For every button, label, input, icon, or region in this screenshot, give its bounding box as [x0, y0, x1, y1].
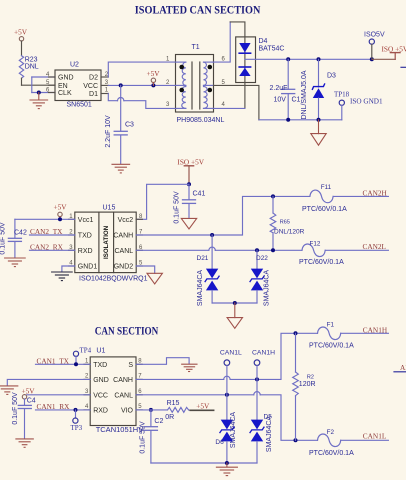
svg-text:C1: C1 — [292, 97, 301, 104]
svg-text:ISO +5V: ISO +5V — [177, 157, 204, 166]
svg-text:Vcc1: Vcc1 — [78, 217, 94, 224]
svg-text:DNL: DNL — [25, 63, 39, 70]
svg-text:C2: C2 — [154, 418, 163, 425]
svg-text:0.1uF 50V: 0.1uF 50V — [12, 392, 19, 425]
transformer T1 PH9085.034NL — [166, 44, 226, 124]
svg-text:TP18: TP18 — [334, 91, 350, 99]
capacitor C3 — [105, 85, 134, 163]
svg-text:TP4: TP4 — [80, 347, 92, 355]
wire CANH mid — [136, 196, 310, 235]
svg-text:GND1: GND1 — [78, 264, 98, 271]
svg-text:CAN2H: CAN2H — [363, 188, 388, 197]
svg-text:DNL/SMAJ5.0A: DNL/SMAJ5.0A — [301, 70, 308, 119]
wire CANL bottom (hop over CAN1H) — [136, 392, 318, 441]
node D21 top — [210, 233, 214, 237]
svg-text:CANL: CANL — [114, 393, 133, 400]
fuse F2 — [309, 429, 388, 457]
svg-text:+5V: +5V — [54, 203, 68, 212]
svg-text:VIO: VIO — [121, 408, 134, 415]
wire CANL mid (hop over D21) — [136, 247, 302, 250]
svg-text:R2: R2 — [307, 375, 314, 381]
svg-text:10V: 10V — [274, 97, 287, 104]
capacitor C41 — [173, 184, 205, 223]
node +5V tap — [151, 83, 155, 87]
svg-text:CAN1L: CAN1L — [220, 349, 242, 356]
ground (earth) U1 GND — [0, 386, 18, 395]
diode D21 SMAJ64CA — [197, 235, 220, 306]
svg-text:CAN2L: CAN2L — [363, 242, 387, 251]
ground (earth) C4 — [16, 439, 33, 447]
node +5V Vcc1 — [58, 217, 62, 221]
wire C2 to TVS common — [151, 462, 257, 464]
test point CAN1H — [252, 349, 275, 379]
test point TP18 ISO GND1 — [334, 91, 383, 120]
node R65 bottom — [271, 248, 275, 252]
test point CAN1L — [220, 349, 242, 394]
svg-text:CAN1L: CAN1L — [363, 432, 387, 441]
svg-text:0R: 0R — [165, 414, 174, 421]
node TVS common — [233, 301, 237, 305]
wire VCC pin3 — [27, 394, 90, 396]
node C1 top — [286, 57, 290, 61]
wire R23 to EN — [22, 84, 56, 86]
capacitor C1 — [270, 59, 301, 120]
svg-text:ISOLATED CAN SECTION: ISOLATED CAN SECTION — [135, 3, 261, 17]
svg-text:CANH: CANH — [113, 233, 133, 240]
svg-text:PTC/60V/0.1A: PTC/60V/0.1A — [309, 450, 354, 457]
ground (earth) GND1 — [52, 272, 73, 281]
svg-text:D4: D4 — [259, 38, 268, 45]
svg-text:CAN1H: CAN1H — [363, 326, 388, 335]
diode D4 BAT54C — [236, 37, 285, 83]
svg-text:120R: 120R — [299, 381, 316, 388]
wire Vcc2 to ISO+5V — [136, 184, 189, 219]
node U2 CLK junction — [37, 91, 41, 95]
isolator U15 ISO1042BQDWVRQ1 — [69, 205, 148, 283]
svg-text:D3: D3 — [327, 73, 336, 80]
svg-text:T1: T1 — [192, 44, 200, 51]
svg-text:EN: EN — [58, 83, 68, 90]
node ISO5V — [370, 57, 374, 61]
svg-text:D6: D6 — [215, 439, 224, 446]
wire T1 pin6 to D4 top — [214, 22, 231, 62]
power port +5V (R15) — [189, 402, 214, 411]
net label CAN1_RX — [36, 402, 91, 411]
wire +5V rail to Vcc1 — [15, 218, 75, 220]
node R2 top — [294, 331, 298, 335]
node D3 bottom — [317, 118, 321, 122]
svg-text:C3: C3 — [125, 121, 134, 128]
fuse F11 — [302, 184, 388, 213]
svg-text:GND: GND — [93, 377, 109, 384]
wire T1 pin5 to ISO GND rail — [214, 85, 259, 119]
capacitor C42 — [0, 219, 27, 257]
svg-text:U15: U15 — [103, 205, 116, 212]
svg-text:PTC/60V/0.1A: PTC/60V/0.1A — [302, 206, 347, 213]
power port +5V (bottom) — [22, 386, 36, 399]
svg-text:SMAJ64CA: SMAJ64CA — [230, 412, 237, 449]
node C3 tap — [119, 83, 123, 87]
svg-text:D2: D2 — [89, 75, 98, 82]
svg-text:CLK: CLK — [58, 90, 72, 97]
svg-text:ISOLATION: ISOLATION — [103, 225, 110, 259]
SECTION-BOT — [0, 322, 406, 476]
ground (power triangle) C41 — [181, 218, 196, 229]
node R2 bottom — [294, 438, 298, 442]
svg-text:D1: D1 — [89, 91, 98, 98]
diode D22 SMAJ64CA — [250, 250, 271, 306]
node VIO — [149, 408, 153, 412]
svg-text:CANL: CANL — [115, 248, 134, 255]
wire stub right edge — [401, 66, 406, 68]
diode D5 SMAJ64CA — [250, 379, 273, 463]
wire D21/D22 common — [212, 302, 257, 304]
svg-text:CAN1H: CAN1H — [252, 349, 275, 356]
svg-text:F1: F1 — [327, 322, 335, 329]
transceiver U1 TCAN1051HV — [84, 348, 143, 434]
ground (power triangle) D3 — [311, 120, 326, 145]
svg-text:CANH: CANH — [113, 377, 133, 384]
svg-text:D22: D22 — [256, 255, 268, 262]
node C1 bottom — [286, 118, 290, 122]
fuse F1 — [309, 322, 388, 350]
wire GND pin2 — [7, 379, 90, 385]
svg-text:RXD: RXD — [78, 248, 93, 255]
svg-text:ISO +5V: ISO +5V — [382, 45, 406, 54]
svg-text:VCC: VCC — [83, 83, 98, 90]
net label CAN2_RX — [30, 243, 75, 252]
svg-text:AN: AN — [400, 363, 406, 372]
wire S pin8 — [136, 358, 189, 365]
svg-text:PTC/60V/0.1A: PTC/60V/0.1A — [299, 259, 344, 266]
test point TP4 — [73, 347, 91, 365]
test point TP3 — [71, 410, 83, 432]
svg-text:R65: R65 — [280, 219, 290, 225]
resistor R2 — [293, 333, 316, 440]
svg-text:VCC: VCC — [93, 393, 108, 400]
power port ISO +5V (mid) — [177, 157, 204, 184]
wire U2 VCC to T1 pin2 — [108, 84, 175, 86]
svg-text:DNL/120R: DNL/120R — [274, 228, 305, 235]
wire D4 bottom to T1 pin4 — [244, 83, 246, 109]
svg-text:ISO5V: ISO5V — [364, 32, 385, 39]
resistor R23 — [19, 41, 39, 85]
node D22 top — [255, 248, 259, 252]
svg-text:U2: U2 — [70, 62, 79, 69]
svg-text:TXD: TXD — [93, 362, 107, 369]
svg-text:ISO GND1: ISO GND1 — [350, 97, 383, 105]
node C41 top — [187, 182, 191, 186]
svg-text:PTC/60V/0.1A: PTC/60V/0.1A — [309, 342, 354, 349]
ground (earth) S pin8 — [182, 364, 197, 371]
node TP3 — [74, 408, 78, 412]
power port ISO +5V (top right) — [372, 45, 406, 60]
svg-text:2.2uF 10V: 2.2uF 10V — [105, 115, 112, 148]
power port +5V (top left) — [14, 28, 28, 41]
wire GND1 — [62, 266, 75, 272]
node CAN1L — [225, 393, 229, 397]
node TP4 — [74, 362, 78, 366]
power port +5V (mid left) — [54, 203, 68, 220]
svg-text:TCAN1051HV: TCAN1051HV — [96, 425, 144, 434]
svg-text:C42: C42 — [14, 229, 27, 236]
node D6 bottom — [225, 461, 229, 465]
capacitor C2 — [140, 410, 164, 463]
wire ISO5V rail — [245, 58, 372, 60]
svg-text:SMAJ64CA: SMAJ64CA — [266, 416, 273, 453]
svg-text:S: S — [128, 362, 133, 369]
resistor R65 — [270, 196, 304, 250]
svg-text:GND2: GND2 — [114, 264, 134, 271]
svg-text:SN6501: SN6501 — [67, 102, 92, 109]
svg-text:U1: U1 — [96, 348, 105, 355]
svg-text:SMAJ64CA: SMAJ64CA — [197, 270, 204, 307]
ground (earth) C42 — [5, 258, 26, 267]
svg-text:C4: C4 — [27, 397, 36, 404]
svg-text:F12: F12 — [310, 240, 321, 247]
ground (earth) D5 D6 — [216, 463, 237, 476]
svg-text:F2: F2 — [327, 429, 335, 436]
svg-text:PH9085.034NL: PH9085.034NL — [177, 117, 225, 124]
svg-text:R15: R15 — [167, 400, 180, 407]
svg-text:TXD: TXD — [78, 233, 92, 240]
svg-text:GND: GND — [58, 75, 74, 82]
wire U2 pin loop — [32, 77, 55, 93]
diode D6 SMAJ64CA — [215, 395, 237, 463]
net stub right edge (cut) — [394, 363, 406, 372]
SECTION-MID — [0, 157, 388, 328]
power port +5V (T1) — [147, 69, 161, 85]
svg-text:0.1uF 50V: 0.1uF 50V — [173, 191, 180, 224]
svg-text:+5V: +5V — [196, 402, 210, 411]
svg-text:2.2uF: 2.2uF — [270, 85, 288, 92]
svg-text:C41: C41 — [193, 191, 206, 198]
svg-text:D21: D21 — [197, 255, 209, 262]
op-amp U2 SN6501 — [46, 62, 109, 109]
net label CAN2_TX — [30, 227, 75, 236]
svg-text:+5V: +5V — [14, 28, 28, 37]
svg-text:ISO1042BQDWVRQ1: ISO1042BQDWVRQ1 — [79, 275, 148, 282]
svg-text:Vcc2: Vcc2 — [118, 217, 134, 224]
svg-text:F11: F11 — [321, 184, 332, 191]
ground (power triangle) GND2 — [147, 273, 162, 284]
fuse F12 — [299, 240, 388, 266]
svg-text:BAT54C: BAT54C — [259, 46, 285, 53]
net label CAN1_TX — [36, 356, 91, 365]
svg-text:0.1uF 50V: 0.1uF 50V — [140, 421, 147, 454]
ground (power triangle) D21 D22 — [227, 303, 242, 328]
svg-text:SMAJ64CA: SMAJ64CA — [264, 270, 271, 307]
diode D3 (TVS) — [301, 59, 336, 120]
node CAN1H — [255, 377, 259, 381]
wire U2 D1 to T1 pin3 (with hop over C3) — [108, 94, 175, 109]
ground (earth) C3 — [112, 164, 130, 173]
svg-text:+5V: +5V — [147, 69, 161, 78]
resistor R15 — [136, 400, 189, 421]
wire CANH bottom (hop over CAN1L) — [136, 333, 318, 379]
node R65 top — [271, 194, 275, 198]
wire U2 D2 to T1 pin1 — [108, 62, 175, 77]
node D3 top — [317, 57, 321, 61]
svg-text:TP3: TP3 — [71, 424, 83, 432]
svg-text:0.1uF 50V: 0.1uF 50V — [0, 222, 6, 255]
ground (earth) U2 left — [30, 93, 48, 109]
svg-text:+5V: +5V — [22, 386, 36, 395]
wire GND2 — [136, 266, 155, 273]
SECTION-TOP — [14, 3, 406, 173]
capacitor C4 — [12, 392, 36, 438]
net label ISO5V — [364, 32, 385, 60]
svg-text:CAN SECTION: CAN SECTION — [95, 324, 159, 338]
svg-text:RXD: RXD — [93, 408, 108, 415]
